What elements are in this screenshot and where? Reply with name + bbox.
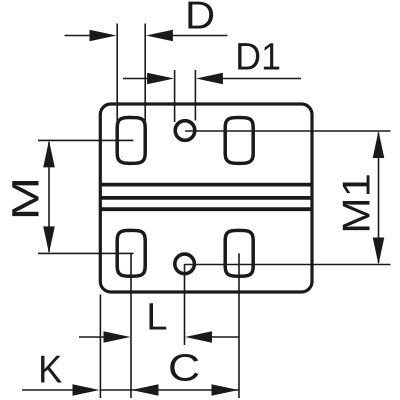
- svg-text:M: M: [5, 177, 47, 221]
- slot top-left: [117, 117, 145, 163]
- arrowhead D left: [90, 30, 117, 42]
- svg-text:M1: M1: [334, 173, 377, 234]
- extension line D left (slot left edge): [116, 24, 118, 122]
- arrowhead L right: [185, 331, 212, 343]
- dimension line D tail right: [170, 35, 228, 37]
- extension line D1 right (circle right edge): [194, 70, 196, 121]
- extension line C right (bottom-right slot centre, going down): [238, 253, 240, 398]
- svg-text:D: D: [185, 0, 215, 37]
- slot top-right: [225, 117, 253, 163]
- extension line M bottom (from bottom-left slot centre): [38, 252, 134, 254]
- dimension line D1 tail right: [221, 78, 301, 80]
- body outline (rounded square block): [100, 104, 312, 292]
- slot bottom-left: [117, 230, 145, 276]
- dimension line L tail right: [210, 336, 239, 338]
- dimension line M1: [378, 133, 380, 264]
- arrowhead L left: [104, 331, 131, 343]
- arrowhead C left: [132, 384, 159, 396]
- extension line M1 top (from top hole centre): [185, 130, 391, 132]
- svg-text:K: K: [38, 347, 62, 390]
- arrowhead C right: [212, 384, 239, 396]
- svg-text:D1: D1: [235, 35, 281, 77]
- extension line M1 bottom (from bottom hole centre): [185, 264, 391, 266]
- extension line D right (slot right edge): [144, 24, 146, 122]
- arrowhead K: [73, 384, 100, 396]
- arrowhead D1 right: [196, 73, 223, 85]
- hole circle bottom: [175, 254, 195, 274]
- groove line 3: [101, 207, 312, 211]
- dimension line D1 tail left: [123, 78, 150, 80]
- dimension line C: [100, 389, 239, 391]
- hole circle top: [175, 121, 195, 141]
- arrowhead M up: [43, 140, 55, 167]
- dimension line D with tail left: [65, 35, 93, 37]
- groove line 2: [101, 196, 312, 200]
- extension line L/C left (bottom-left slot centre, going down): [130, 253, 132, 398]
- dimension line K tail: [22, 389, 75, 391]
- arrowhead M down: [43, 226, 55, 253]
- extension line K (body left edge, below body): [99, 295, 101, 399]
- arrowhead D1 left: [147, 73, 174, 85]
- arrowhead D right: [146, 30, 173, 42]
- svg-text:L: L: [146, 297, 167, 339]
- arrowhead M1 down: [373, 238, 385, 265]
- groove line 1: [101, 183, 312, 187]
- slot bottom-right: [225, 230, 253, 276]
- extension line D1 left (circle left edge): [174, 70, 176, 122]
- extension line L right (bottom hole centre, going down): [184, 264, 186, 345]
- extension line M top (from top-left slot centre): [38, 139, 134, 141]
- dimension line M: [48, 142, 50, 252]
- svg-text:C: C: [168, 347, 200, 389]
- dimension line L tail left: [79, 336, 106, 338]
- arrowhead M1 up: [373, 131, 385, 158]
